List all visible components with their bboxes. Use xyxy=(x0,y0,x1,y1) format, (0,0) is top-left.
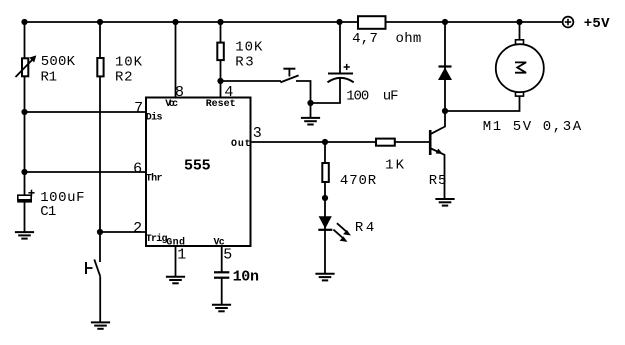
ground switch S2 xyxy=(91,322,110,328)
svg-text:10K: 10K xyxy=(115,55,143,71)
potentiometer R1 xyxy=(16,55,37,77)
svg-text:Reset: Reset xyxy=(206,99,236,110)
resistor 470R xyxy=(322,163,329,182)
resistor 1K xyxy=(376,139,395,146)
capacitor C2 (100 uF at reset) xyxy=(328,64,354,82)
svg-text:Dis: Dis xyxy=(146,112,163,124)
node diode top xyxy=(442,19,448,25)
svg-text:2: 2 xyxy=(133,220,142,237)
svg-text:Gnd: Gnd xyxy=(166,237,185,249)
node Trig row xyxy=(97,229,103,235)
LED R4 symbol xyxy=(318,216,332,230)
svg-text:Vcc: Vcc xyxy=(165,99,178,110)
svg-text:R2: R2 xyxy=(115,70,133,86)
node R3 top xyxy=(217,19,223,25)
svg-text:M1 5V 0,3A: M1 5V 0,3A xyxy=(483,119,582,135)
node switch S1 gnd xyxy=(307,100,313,106)
wire 555 pin1 gnd stub xyxy=(175,246,177,277)
node top-left corner xyxy=(21,19,27,25)
diode D1 xyxy=(438,67,452,81)
capacitor 10n xyxy=(214,272,229,277)
wire capacitor C2 top lead xyxy=(339,22,341,74)
svg-text:Out: Out xyxy=(231,139,251,150)
ground C1 xyxy=(15,232,34,239)
node Dis row xyxy=(21,109,27,115)
svg-text:R1: R1 xyxy=(41,70,58,86)
wire left rail (R1/C1 branch) xyxy=(24,22,26,232)
svg-text:C1: C1 xyxy=(40,204,56,220)
node Out row xyxy=(322,139,328,145)
svg-text:Vc: Vc xyxy=(214,238,225,249)
svg-text:10K: 10K xyxy=(235,40,263,56)
wire switch S2 bottom contact xyxy=(99,276,101,322)
svg-text:Trig: Trig xyxy=(146,233,168,245)
wire Out row to transistor base xyxy=(251,141,430,143)
wire 555 pin5 stub xyxy=(221,246,223,272)
svg-text:5: 5 xyxy=(223,246,232,263)
wire motor top lead xyxy=(519,22,521,40)
node LED top xyxy=(322,195,328,201)
resistor R2 xyxy=(97,58,103,76)
svg-text:1K: 1K xyxy=(385,158,404,174)
svg-text:3: 3 xyxy=(253,125,262,142)
svg-text:Thr: Thr xyxy=(146,173,163,185)
ground 10n xyxy=(212,305,231,312)
capacitor C1 (100uF) xyxy=(17,190,34,202)
node reset row xyxy=(217,78,223,84)
motor M1 xyxy=(496,40,544,96)
LED emission arrow 1 xyxy=(337,223,351,235)
wire 470R / LED branch xyxy=(324,142,326,274)
node Thr row xyxy=(21,169,27,175)
wire capacitor C2 bottom lead xyxy=(311,79,341,104)
svg-text:100 uF: 100 uF xyxy=(346,89,398,105)
svg-text:6: 6 xyxy=(133,160,142,177)
svg-text:7: 7 xyxy=(134,100,143,117)
wire R3 / pin4 reset stub xyxy=(220,22,222,97)
wire 10n cap bottom lead xyxy=(221,278,223,305)
wire Trig row xyxy=(100,231,146,233)
resistor 4,7 ohm xyxy=(358,16,386,29)
node motor top xyxy=(516,19,522,25)
wire R2 branch xyxy=(99,22,101,232)
wire reset row to switch xyxy=(221,80,282,82)
pushbutton switch S1 (reset) xyxy=(280,69,298,83)
ground switch S1 xyxy=(301,118,320,125)
svg-text:1: 1 xyxy=(177,246,186,263)
svg-text:R5: R5 xyxy=(429,173,447,189)
wire motor bottom to node xyxy=(445,96,520,111)
wire top +5V rail xyxy=(25,21,563,23)
svg-text:555: 555 xyxy=(184,158,211,175)
svg-text:500K: 500K xyxy=(41,54,76,70)
wire diode branch xyxy=(444,22,446,111)
ground transistor emitter xyxy=(435,199,454,206)
node pin8 top xyxy=(172,19,178,25)
terminal +5V xyxy=(563,17,574,28)
svg-text:4,7 ohm: 4,7 ohm xyxy=(352,31,421,47)
wire switch S1 right contact down xyxy=(296,81,311,117)
transistor R5 (NPN) xyxy=(430,111,445,199)
wire Dis row xyxy=(25,111,147,113)
svg-text:470R: 470R xyxy=(340,173,377,189)
svg-text:10n: 10n xyxy=(233,269,259,286)
ground 555 pin1 xyxy=(166,277,185,284)
svg-text:+5V: +5V xyxy=(584,16,610,32)
resistor R3 xyxy=(217,43,224,61)
LED emission arrow 2 xyxy=(333,230,347,242)
node C2 top xyxy=(336,19,342,25)
wire switch S2 top contact xyxy=(99,232,101,262)
wire Thr row xyxy=(25,171,147,173)
ground LED xyxy=(315,274,334,281)
svg-text:R3: R3 xyxy=(235,55,253,71)
pushbutton switch S2 (trigger) xyxy=(86,259,100,276)
node collector xyxy=(442,108,448,114)
wire pin8 Vcc stub xyxy=(175,22,177,97)
node R2 top xyxy=(97,19,103,25)
IC 555 body xyxy=(146,98,251,247)
